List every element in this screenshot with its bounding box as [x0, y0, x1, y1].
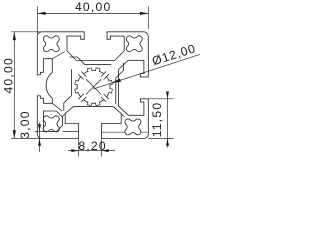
- bottom-left pocket with 3mm floor: [43, 111, 62, 131]
- web stub lower-left to pocket: [52, 103, 62, 111]
- X cross centerlines: [86, 79, 101, 94]
- web stub upper-left: [52, 52, 65, 59]
- svg-text:40,00: 40,00: [1, 57, 15, 94]
- bottom wall inner surface right of slot: [101, 131, 147, 133]
- leader line with label for center bore: [93, 54, 200, 89]
- corner bore bottom-left (in pocket): [43, 116, 59, 132]
- core box pinwheel webs: [64, 69, 72, 111]
- corner bore top-left: [43, 36, 59, 52]
- bottom wall inner surface left of slot: [63, 131, 79, 133]
- svg-text:40,00: 40,00: [75, 0, 112, 14]
- corner bore top-right: [126, 36, 142, 52]
- svg-text:3,00: 3,00: [18, 110, 32, 139]
- center bore circle: [77, 70, 110, 103]
- web stub bottom cavity east: [121, 114, 124, 117]
- center bore teeth: [109, 80, 113, 85]
- corner bore bottom-right: [125, 119, 141, 135]
- svg-text:8,20: 8,20: [78, 139, 107, 153]
- svg-text:11,50: 11,50: [150, 102, 164, 138]
- center bore corner V-notches: [101, 72, 109, 80]
- web stub bottom cavity west: [62, 114, 65, 117]
- dimension 3,00 (pocket floor thickness): [35, 130, 47, 132]
- profile outer contour with four slot cavities: [37, 32, 148, 139]
- dimension 8,20 (bottom slot mouth): [78, 140, 80, 157]
- top dimension 40,00: [36, 6, 38, 34]
- left dimension 40,00: [11, 31, 43, 33]
- dimension 11,50 (right slot mouth to bottom): [147, 98, 174, 100]
